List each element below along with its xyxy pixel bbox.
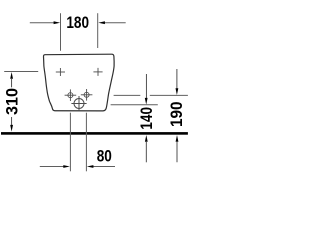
dim 180: right extension line bbox=[97, 13, 99, 48]
dim 140: upper extension line segment b bbox=[150, 94, 188, 96]
water connection circle left bbox=[65, 89, 77, 101]
dim 80: left extension line bbox=[69, 113, 71, 172]
dim 80: left arrowhead bbox=[63, 165, 70, 168]
fixture outline (wall-hung bidet rear view) bbox=[43, 54, 114, 111]
dim 190: upper stem bbox=[176, 69, 178, 89]
dim 180: right arrowhead bbox=[98, 21, 105, 24]
dim 140: upper extension line (outlet level) segment a bbox=[114, 94, 141, 96]
dim 190: below-floor stem bbox=[176, 141, 178, 162]
svg-text:140: 140 bbox=[138, 107, 157, 130]
dim 180: right arrow tail bbox=[103, 22, 125, 24]
dim 140: upper stem bbox=[145, 74, 147, 99]
dim 310: lower stem bbox=[11, 117, 13, 126]
dim 80: right arrow tail bbox=[92, 166, 115, 168]
dim 180: left extension line bbox=[60, 13, 62, 51]
dim 80: right extension line bbox=[85, 113, 87, 172]
fixing hole cross right bbox=[93, 68, 102, 76]
dim 190: below-floor arrowhead (up) bbox=[176, 135, 179, 142]
dim 310: upper stem bbox=[11, 78, 13, 87]
svg-text:190: 190 bbox=[167, 101, 186, 127]
dim 80: right arrowhead bbox=[87, 165, 94, 168]
floor line bbox=[1, 132, 188, 135]
svg-text:80: 80 bbox=[97, 147, 112, 166]
dim 140: below-floor arrowhead (up) bbox=[145, 135, 148, 142]
dim 180: left arrowhead bbox=[54, 21, 61, 24]
dim 80: left arrow tail bbox=[40, 166, 64, 168]
dim 310: upper arrowhead (up) bbox=[10, 72, 13, 79]
svg-text:180: 180 bbox=[66, 14, 89, 33]
water connection circle right bbox=[81, 89, 93, 101]
svg-text:310: 310 bbox=[2, 88, 21, 115]
dim 310: extension line at holes level bbox=[4, 71, 38, 73]
dim 140: upper arrowhead (down) bbox=[145, 98, 148, 105]
dim 140: lower extension line (spigot level) bbox=[111, 104, 158, 106]
dim 310: lower arrowhead (down) bbox=[10, 125, 13, 132]
dim 190: upper arrowhead (down) bbox=[176, 88, 179, 95]
dim 140: below-floor stem bbox=[145, 141, 147, 162]
fixing hole cross left bbox=[56, 68, 65, 76]
dim 180: left arrow tail bbox=[30, 22, 55, 24]
drain circle center bbox=[71, 96, 86, 111]
